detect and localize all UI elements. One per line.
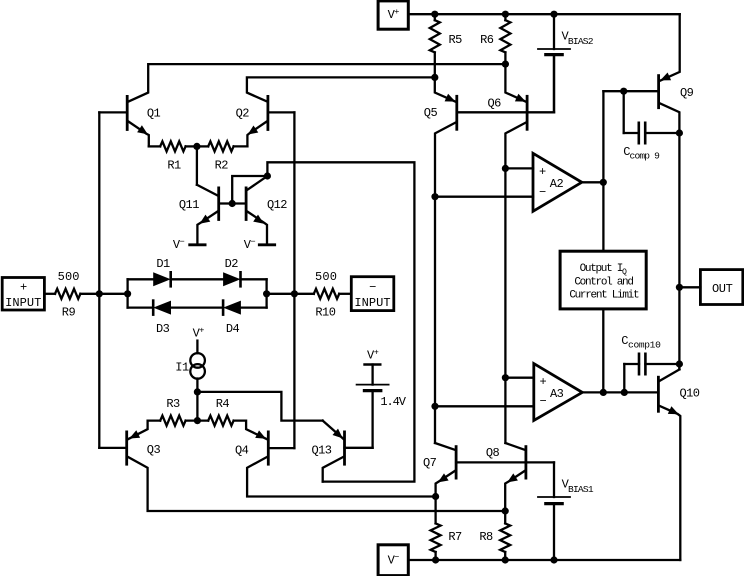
svg-text:Q4: Q4 bbox=[235, 443, 249, 457]
svg-text:A2: A2 bbox=[550, 177, 564, 191]
svg-text:+: + bbox=[540, 375, 547, 389]
svg-text:R9: R9 bbox=[62, 306, 76, 320]
svg-text:Q2: Q2 bbox=[236, 107, 250, 121]
svg-text:Q8: Q8 bbox=[486, 446, 500, 460]
svg-text:I1: I1 bbox=[175, 361, 189, 375]
svg-text:Q11: Q11 bbox=[179, 198, 199, 212]
svg-text:Output IQ: Output IQ bbox=[580, 263, 627, 277]
svg-text:500: 500 bbox=[58, 270, 80, 284]
svg-text:+: + bbox=[20, 281, 27, 295]
svg-text:Q13: Q13 bbox=[312, 443, 332, 457]
svg-text:−: − bbox=[539, 185, 546, 199]
svg-text:Q3: Q3 bbox=[147, 443, 161, 457]
svg-text:+: + bbox=[539, 165, 546, 179]
svg-text:INPUT: INPUT bbox=[5, 296, 41, 310]
svg-text:R5: R5 bbox=[449, 33, 463, 47]
svg-text:D1: D1 bbox=[156, 257, 170, 271]
svg-text:R8: R8 bbox=[479, 530, 493, 544]
svg-text:INPUT: INPUT bbox=[354, 296, 390, 310]
svg-text:D3: D3 bbox=[156, 322, 170, 336]
svg-text:Q7: Q7 bbox=[423, 456, 437, 470]
svg-text:R3: R3 bbox=[166, 397, 180, 411]
svg-text:D4: D4 bbox=[226, 322, 240, 336]
svg-text:Q12: Q12 bbox=[267, 198, 287, 212]
svg-text:Control and: Control and bbox=[574, 277, 633, 289]
svg-text:R4: R4 bbox=[216, 397, 230, 411]
svg-text:Q6: Q6 bbox=[488, 96, 502, 110]
svg-text:−: − bbox=[540, 395, 547, 409]
svg-text:R6: R6 bbox=[480, 33, 494, 47]
svg-text:Q5: Q5 bbox=[424, 106, 438, 120]
svg-text:R7: R7 bbox=[448, 530, 462, 544]
svg-text:D2: D2 bbox=[225, 257, 239, 271]
svg-text:Q1: Q1 bbox=[147, 107, 161, 121]
svg-text:A3: A3 bbox=[550, 387, 564, 401]
svg-text:OUT: OUT bbox=[712, 282, 733, 296]
svg-text:1.4V: 1.4V bbox=[380, 395, 406, 409]
svg-text:Current Limit: Current Limit bbox=[569, 290, 639, 302]
svg-text:R1: R1 bbox=[167, 159, 181, 173]
svg-text:Q10: Q10 bbox=[680, 387, 700, 401]
svg-text:Q9: Q9 bbox=[680, 86, 694, 100]
svg-text:−: − bbox=[369, 281, 376, 295]
svg-text:500: 500 bbox=[315, 270, 337, 284]
svg-text:R2: R2 bbox=[215, 159, 229, 173]
svg-text:R10: R10 bbox=[315, 306, 335, 320]
